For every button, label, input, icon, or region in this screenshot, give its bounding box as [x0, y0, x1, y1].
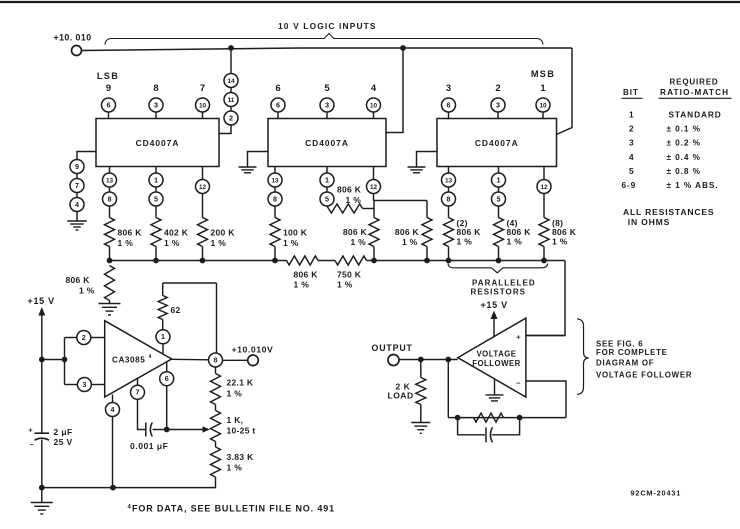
wire 62 top — [163, 282, 217, 284]
table row bit 5 — [629, 166, 701, 176]
junction bus x544 — [541, 258, 547, 264]
bit 8 input pin 3 — [149, 83, 163, 119]
svg-text:0.001 μF: 0.001 μF — [130, 441, 168, 451]
pin 9 — [70, 160, 84, 174]
svg-text:7: 7 — [136, 388, 140, 397]
junction out-fb — [445, 357, 451, 363]
svg-text:13: 13 — [106, 177, 114, 184]
op-amp U4 CA3085 — [105, 321, 172, 397]
table row bit 3 — [629, 138, 701, 148]
svg-text:22.1 K: 22.1 K — [227, 378, 254, 388]
svg-text:3: 3 — [325, 100, 329, 109]
bit 6 input pin 6 — [271, 83, 285, 119]
svg-text:6: 6 — [107, 100, 111, 109]
wire fb rail — [448, 417, 566, 419]
svg-text:−: − — [30, 442, 34, 449]
capacitor C1 2uF plates — [29, 428, 50, 450]
svg-text:VOLTAGE: VOLTAGE — [476, 350, 516, 359]
brace see fig — [577, 319, 589, 395]
svg-text:FOR COMPLETE: FOR COMPLETE — [596, 348, 668, 357]
label MSB — [531, 69, 555, 79]
arrow +15V rail — [38, 307, 45, 316]
svg-text:13: 13 — [445, 177, 453, 184]
table header ratio-match — [659, 88, 732, 98]
svg-text:1 %: 1 % — [457, 237, 473, 247]
svg-text:4: 4 — [371, 83, 377, 94]
label 10 V LOGIC INPUTS — [278, 21, 377, 31]
svg-text:1 %: 1 % — [294, 280, 310, 290]
svg-text:3: 3 — [629, 138, 635, 148]
junction bottom gnd — [39, 485, 45, 491]
terminal +10.010V out — [248, 355, 259, 366]
ground G6 — [411, 423, 430, 434]
svg-text:1 %: 1 % — [227, 389, 243, 399]
wire U2 left gnd — [248, 152, 269, 167]
resistor (4)806K bit2 — [494, 206, 532, 261]
resistor follower feedback — [474, 413, 504, 422]
wire input split — [65, 338, 78, 385]
label +15 V follower — [481, 300, 508, 310]
bit 2 input pin 3 — [491, 83, 505, 119]
junction bus-U2 — [400, 45, 406, 51]
pin 12 U1 — [196, 167, 210, 194]
resistor 806K bit9 — [105, 206, 143, 261]
svg-text:± 0.8 %: ± 0.8 % — [667, 166, 701, 176]
wire +15V rail — [41, 314, 43, 433]
junction bus x202.5 — [200, 258, 206, 264]
footnote bulletin — [128, 504, 335, 514]
junction bus x448.5 — [446, 258, 452, 264]
wire bus to follower + — [526, 261, 565, 336]
arrow pot wiper — [203, 426, 211, 432]
svg-text:± 0.2 %: ± 0.2 % — [667, 138, 701, 148]
wire feedback right — [216, 283, 218, 353]
part number 92CM-20431 — [631, 489, 682, 498]
svg-text:MSB: MSB — [531, 69, 555, 79]
svg-text:1 %: 1 % — [552, 237, 568, 247]
svg-text:+15 V: +15 V — [481, 300, 508, 310]
svg-text:5: 5 — [325, 194, 329, 203]
pin 12 U2 — [367, 167, 381, 194]
svg-text:−: − — [516, 379, 521, 388]
svg-text:8: 8 — [108, 194, 112, 203]
terminal OUTPUT — [388, 355, 399, 366]
junction bus x374 — [371, 258, 377, 264]
svg-text:1: 1 — [629, 110, 635, 120]
svg-text:1 %: 1 % — [350, 237, 366, 247]
IC U2 CD4007A box — [268, 119, 386, 167]
svg-text:10: 10 — [370, 102, 378, 109]
wire pin1 stem — [162, 344, 164, 354]
wire pin3 to opamp — [91, 384, 104, 386]
svg-text:806 K: 806 K — [118, 228, 143, 238]
label C1 2uF 25V — [54, 427, 73, 447]
resistor 806K bus label — [294, 270, 319, 290]
wire cap to wiper — [153, 429, 204, 431]
junction rail-input — [39, 357, 45, 363]
wire pin6 down — [166, 386, 168, 430]
svg-text:ALL RESISTANCES: ALL RESISTANCES — [623, 207, 714, 217]
resistor (8)806K bit1 MSB — [539, 194, 577, 261]
svg-text:750 K: 750 K — [337, 270, 362, 280]
wire bus to pin 14 — [230, 48, 232, 74]
resistor (2)806K bit3 — [444, 206, 482, 261]
svg-text:2 μF: 2 μF — [54, 427, 73, 437]
svg-text:5: 5 — [324, 83, 330, 94]
svg-text:14: 14 — [227, 78, 235, 85]
svg-text:1 %: 1 % — [79, 286, 95, 296]
svg-text:OUTPUT: OUTPUT — [372, 343, 413, 353]
svg-text:1 %: 1 % — [507, 237, 523, 247]
svg-text:4: 4 — [111, 405, 115, 414]
svg-text:1: 1 — [540, 83, 546, 94]
wire pin12 U2 node — [374, 194, 428, 218]
junction bottom pin4 — [110, 485, 116, 491]
svg-text:5: 5 — [629, 166, 635, 176]
bit 9 input pin 6 — [102, 83, 116, 119]
wire pin2 to opamp — [91, 337, 105, 339]
resistor 806K offset — [66, 266, 115, 304]
svg-text:3.83 K: 3.83 K — [227, 452, 255, 462]
pin 14 — [224, 74, 238, 88]
svg-text:806 K: 806 K — [294, 270, 319, 280]
wire bus to U3 right — [557, 48, 573, 135]
bit 3 input pin 6 — [442, 83, 456, 119]
svg-text:1 %: 1 % — [402, 237, 418, 247]
wire pin4 down — [112, 417, 114, 488]
brace paralleled resistors — [448, 264, 548, 273]
note see fig 6 — [596, 340, 692, 380]
bit 4 input pin 10 — [367, 83, 381, 119]
pin 11 — [224, 93, 238, 107]
svg-text:4: 4 — [75, 200, 79, 209]
label OUTPUT — [372, 343, 413, 353]
pin 7 — [70, 179, 84, 193]
svg-text:BIT: BIT — [623, 88, 639, 97]
junction bus-pin14 — [228, 45, 234, 51]
svg-text:13: 13 — [271, 177, 279, 184]
svg-text:8: 8 — [214, 355, 218, 364]
pin 7 CA3085 — [131, 378, 145, 400]
stacked pins 1/5 U3 — [492, 167, 506, 207]
svg-text:1: 1 — [497, 175, 501, 184]
svg-text:2: 2 — [229, 113, 233, 122]
resistor 62 — [158, 283, 180, 330]
border top edge — [0, 1, 740, 3]
wire follower minus input — [526, 381, 566, 418]
svg-text:DIAGRAM OF: DIAGRAM OF — [596, 358, 654, 367]
resistor 22.1K — [211, 374, 254, 405]
junction fb left — [455, 415, 461, 421]
wire opamp out — [172, 358, 209, 361]
junction bus x498.5 — [496, 258, 502, 264]
svg-text:12: 12 — [370, 184, 378, 191]
wire load gnd — [420, 405, 422, 423]
svg-text:6: 6 — [447, 100, 451, 109]
ground G3 — [408, 167, 426, 173]
stacked pins 13/8 U2 — [268, 167, 282, 207]
pin 2 CA3085 — [77, 331, 91, 345]
svg-text:806 K: 806 K — [395, 227, 420, 237]
svg-text:3: 3 — [154, 100, 158, 109]
table row bit 4 — [629, 152, 701, 162]
wire out to terminal — [223, 359, 248, 361]
table row bit 6-9 — [622, 180, 719, 190]
stacked pins 1/5 U1 — [149, 167, 163, 207]
svg-text:+15 V: +15 V — [28, 296, 55, 306]
svg-text:806 K: 806 K — [343, 227, 368, 237]
node +10.010 supply label — [54, 33, 92, 43]
bit 7 input pin 10 — [196, 83, 210, 119]
svg-text:806 K: 806 K — [66, 275, 91, 285]
resistor 2K LOAD — [388, 378, 426, 405]
wire U3 left gnd — [417, 152, 438, 167]
svg-text:1: 1 — [154, 175, 158, 184]
wire pin7-4 — [76, 193, 78, 198]
ground G4 — [99, 304, 121, 315]
svg-text:LSB: LSB — [97, 71, 119, 81]
note all resistances — [623, 207, 714, 227]
resistor 806K shunt B — [395, 201, 432, 261]
arrow +15V follower — [491, 311, 498, 337]
stacked pins 1/5 U2 — [320, 167, 334, 207]
pin 4 — [70, 198, 84, 212]
wire pin7 down — [138, 399, 146, 429]
junction bus x109.5 — [107, 258, 113, 264]
junction out-load — [418, 357, 424, 363]
svg-text:IN OHMS: IN OHMS — [628, 217, 670, 227]
op-amp U5 voltage follower — [458, 318, 526, 397]
svg-text:806 K: 806 K — [552, 227, 577, 237]
svg-text:+: + — [516, 333, 521, 342]
svg-text:5: 5 — [497, 194, 501, 203]
wire bottom return — [42, 477, 216, 488]
svg-text:402 K: 402 K — [164, 228, 189, 238]
svg-text:RATIO-MATCH: RATIO-MATCH — [660, 88, 729, 97]
svg-text:10: 10 — [539, 102, 547, 109]
wire +10.010 bus — [82, 48, 573, 51]
capacitor C3 feedback — [486, 427, 492, 442]
table header bit — [622, 88, 643, 98]
svg-text:12: 12 — [540, 184, 548, 191]
svg-text:3: 3 — [446, 83, 451, 94]
pin 3 CA3085 — [77, 378, 91, 392]
svg-text:+10.010V: +10.010V — [232, 345, 274, 355]
wire cap branch — [458, 418, 520, 435]
svg-text:± 0.1 %: ± 0.1 % — [667, 124, 701, 134]
terminal +10.010 — [72, 46, 82, 56]
pin 12 U3 — [537, 167, 551, 194]
resistor 806K series bit5 — [327, 185, 374, 214]
svg-text:PARALLELED: PARALLELED — [472, 279, 536, 288]
svg-text:100 K: 100 K — [283, 228, 308, 238]
svg-text:1: 1 — [161, 332, 165, 341]
junction bus x275 — [272, 258, 278, 264]
svg-text:8: 8 — [153, 83, 158, 94]
svg-text:RESISTORS: RESISTORS — [471, 288, 527, 297]
junction wiper — [164, 427, 170, 433]
label LSB — [97, 71, 119, 81]
svg-text:12: 12 — [199, 184, 207, 191]
svg-text:6-9: 6-9 — [622, 180, 637, 190]
svg-text:2: 2 — [82, 333, 86, 342]
resistor 200K bit7 — [198, 194, 236, 261]
svg-text:CD4007A: CD4007A — [305, 138, 349, 148]
svg-text:+: + — [29, 428, 33, 435]
svg-text:FOLLOWER: FOLLOWER — [472, 359, 521, 368]
pin 6 CA3085 — [160, 362, 174, 386]
svg-text:6: 6 — [275, 83, 280, 94]
svg-text:4: 4 — [149, 354, 152, 360]
svg-text:8: 8 — [273, 194, 277, 203]
svg-text:VOLTAGE FOLLOWER: VOLTAGE FOLLOWER — [596, 370, 692, 379]
resistor 3.83K — [211, 447, 255, 477]
svg-text:200 K: 200 K — [211, 228, 236, 238]
potentiometer 1K 10-25t — [211, 411, 256, 442]
svg-text:2: 2 — [495, 83, 500, 94]
svg-text:REQUIRED: REQUIRED — [670, 78, 719, 87]
svg-text:1 %: 1 % — [118, 238, 134, 248]
svg-text:3: 3 — [496, 100, 500, 109]
wire U1 left to pin 9 — [77, 152, 96, 160]
wire pot-r — [215, 442, 217, 448]
svg-text:STANDARD: STANDARD — [669, 110, 722, 120]
wire pin9-7 — [76, 174, 78, 179]
IC U3 CD4007A box — [437, 119, 557, 167]
pin 4 CA3085 — [106, 395, 120, 417]
callout brace 10V logic inputs — [105, 34, 543, 45]
capacitor C2 0.001uF — [130, 423, 168, 452]
resistor 402K bit8 — [151, 206, 189, 261]
svg-text:8: 8 — [447, 194, 451, 203]
wire pin4 gnd — [76, 212, 78, 221]
junction bus x156 — [153, 258, 159, 264]
svg-text:1 %: 1 % — [283, 238, 299, 248]
svg-text:4: 4 — [629, 152, 635, 162]
svg-text:6: 6 — [165, 374, 169, 383]
svg-text:806 K: 806 K — [457, 227, 482, 237]
svg-text:9: 9 — [106, 83, 111, 94]
svg-text:CA3085: CA3085 — [112, 356, 145, 365]
svg-text:11: 11 — [228, 97, 235, 104]
wire pin2 to U1 — [219, 125, 231, 134]
svg-text:7: 7 — [75, 181, 79, 190]
svg-text:25 V: 25 V — [54, 437, 73, 447]
note paralleled resistors — [471, 279, 536, 297]
label +10.010V — [232, 345, 274, 355]
svg-text:10-25 t: 10-25 t — [227, 426, 256, 436]
resistor 806K shunt A — [343, 218, 379, 261]
junction fb right — [517, 415, 523, 421]
pin 1 CA3085 — [156, 330, 170, 344]
wire load — [420, 360, 422, 378]
junction input split — [62, 357, 68, 363]
svg-text:1: 1 — [325, 175, 329, 184]
wire pin8 down — [215, 367, 217, 374]
wire output node — [399, 359, 458, 361]
wire rail to inputs — [42, 359, 65, 361]
ground G2 — [239, 167, 257, 173]
svg-text:1 %: 1 % — [346, 195, 362, 205]
stacked pins 13/8 U1 — [103, 167, 117, 207]
svg-text:1 %: 1 % — [211, 238, 227, 248]
junction bus x427 — [424, 258, 430, 264]
wire summing bus — [110, 256, 566, 265]
wire r-pot — [215, 405, 217, 411]
svg-text:10: 10 — [199, 102, 207, 109]
resistor 750K bus label — [337, 270, 362, 290]
svg-text:2: 2 — [629, 124, 635, 134]
wire pin14-11 — [230, 88, 232, 93]
stacked pins 13/8 U3 — [442, 167, 456, 207]
pin 8 CA3085 — [209, 353, 223, 367]
svg-text:1 K,: 1 K, — [227, 415, 244, 425]
table row bit 1 — [629, 110, 722, 120]
svg-text:+10. 010: +10. 010 — [54, 33, 92, 43]
ground G7 follower — [486, 379, 504, 401]
table header required — [670, 78, 719, 87]
label +15 V left — [28, 296, 55, 306]
svg-text:1 %: 1 % — [337, 280, 353, 290]
svg-text:± 1 % ABS.: ± 1 % ABS. — [667, 180, 719, 190]
svg-text:806 K: 806 K — [337, 185, 362, 195]
bit 5 input pin 3 — [320, 83, 334, 119]
wire pin11-2 — [230, 107, 232, 112]
svg-text:3: 3 — [82, 380, 86, 389]
svg-text:LOAD: LOAD — [388, 391, 414, 401]
svg-text:1 %: 1 % — [227, 463, 243, 473]
wire bus to U2 right — [386, 48, 403, 133]
svg-text:SEE FIG. 6: SEE FIG. 6 — [596, 340, 643, 349]
svg-text:1 %: 1 % — [164, 238, 180, 248]
svg-text:62: 62 — [171, 305, 181, 315]
ground G1 — [67, 221, 87, 230]
wire rail below C1 — [41, 440, 43, 488]
svg-text:9: 9 — [75, 162, 79, 171]
svg-text:± 0.4 %: ± 0.4 % — [667, 152, 701, 162]
svg-text:CD4007A: CD4007A — [136, 138, 180, 148]
svg-text:92CM-20431: 92CM-20431 — [631, 489, 682, 498]
svg-text:5: 5 — [154, 194, 158, 203]
bit 1 input pin 10 — [536, 83, 550, 119]
svg-text:7: 7 — [200, 83, 205, 94]
resistor 100K bit6 — [270, 206, 308, 261]
pin 2 — [224, 111, 238, 125]
wire fb node down — [447, 360, 449, 418]
svg-text:806 K: 806 K — [507, 227, 532, 237]
svg-text:6: 6 — [276, 100, 280, 109]
svg-text:10 V LOGIC INPUTS: 10 V LOGIC INPUTS — [278, 21, 377, 31]
ground G5 — [31, 488, 53, 514]
IC U1 CD4007A box — [96, 119, 219, 167]
wire follower plus input — [526, 335, 565, 337]
svg-text:FOR DATA, SEE BULLETIN FILE NO: FOR DATA, SEE BULLETIN FILE NO. 491 — [132, 504, 335, 514]
table row bit 2 — [629, 124, 701, 134]
svg-text:CD4007A: CD4007A — [475, 138, 519, 148]
